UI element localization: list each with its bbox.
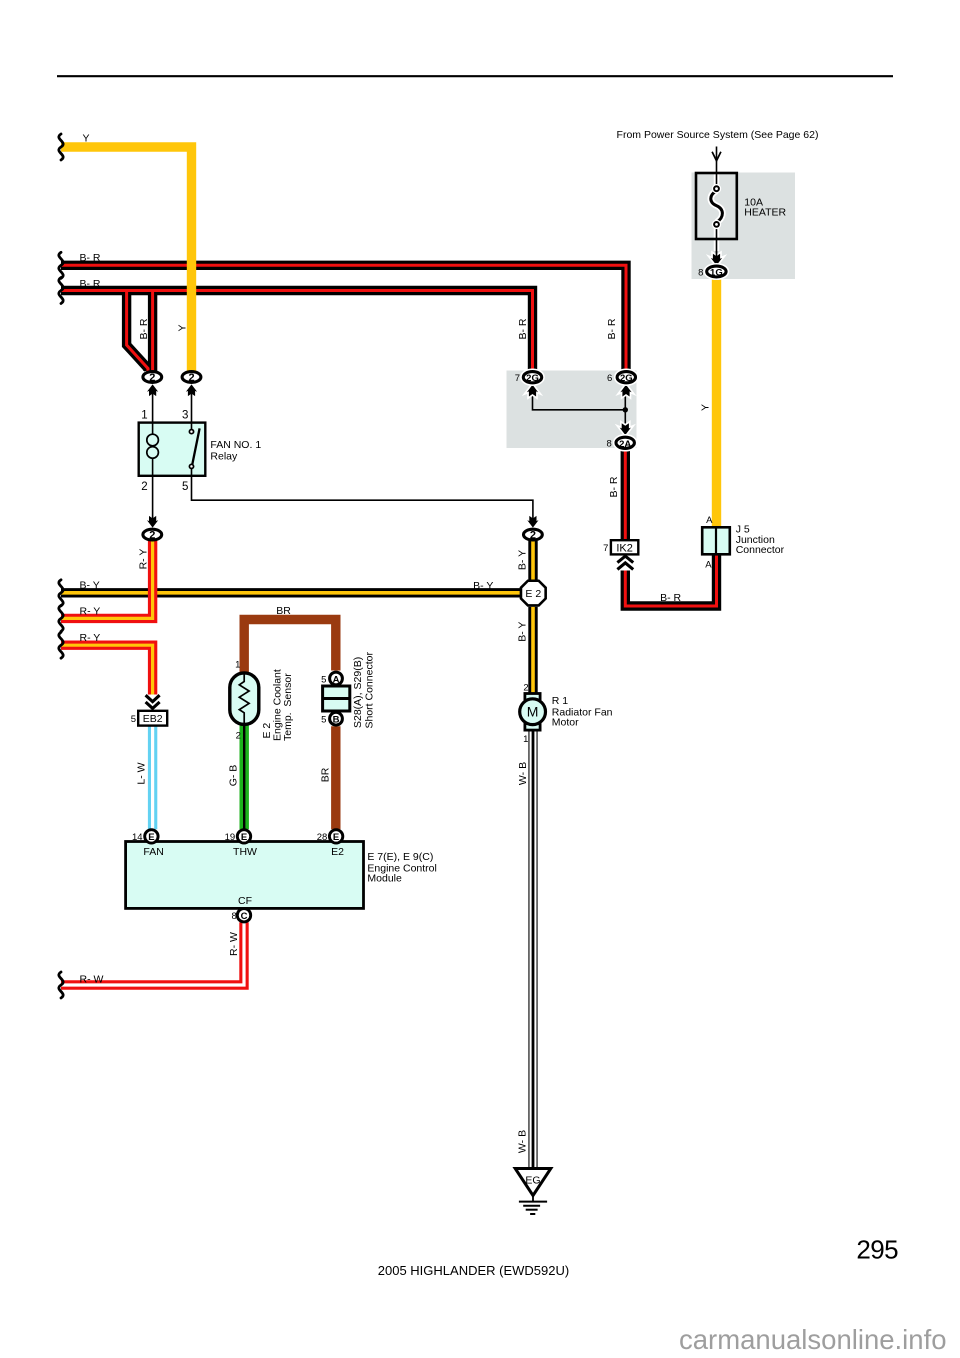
wire: connector 2 to relay pin 3	[191, 390, 193, 423]
ECM pin E 19 THW	[237, 830, 250, 843]
svg-text:2: 2	[188, 372, 194, 384]
svg-text:B- R: B- R	[517, 318, 529, 339]
svg-text:S28(A), S29(B): S28(A), S29(B)	[352, 657, 364, 728]
svg-text:BR: BR	[276, 605, 291, 617]
svg-text:E2: E2	[331, 846, 344, 858]
wire: 7 2G link to junction	[533, 392, 626, 410]
sensor E 2 Engine Coolant Temp. Sensor	[230, 659, 294, 741]
svg-text:Y: Y	[176, 324, 188, 331]
svg-text:Relay: Relay	[210, 451, 238, 463]
svg-text:Connector: Connector	[736, 544, 785, 556]
relay coil	[152, 423, 154, 434]
svg-text:14: 14	[132, 832, 143, 843]
svg-text:5: 5	[321, 674, 326, 685]
svg-text:1G: 1G	[710, 268, 723, 279]
wire: fuse to 1G	[716, 226, 718, 264]
open arrow into fuse	[712, 152, 721, 161]
wire: relay pin 2 to connector 2	[152, 476, 154, 520]
svg-text:28: 28	[317, 832, 328, 843]
svg-text:2A: 2A	[619, 439, 631, 450]
svg-text:2: 2	[523, 683, 528, 694]
svg-text:R- W: R- W	[228, 932, 240, 956]
svg-text:2005 HIGHLANDER (EWD592U): 2005 HIGHLANDER (EWD592U)	[378, 1263, 569, 1278]
svg-text:G- B: G- B	[228, 765, 240, 787]
fuse F1 10A HEATER	[696, 173, 787, 263]
svg-text:B: B	[333, 715, 340, 726]
svg-text:R- Y: R- Y	[80, 632, 101, 644]
break (R-Y 1)	[59, 605, 63, 631]
svg-text:3: 3	[182, 410, 188, 422]
svg-text:A: A	[706, 515, 713, 526]
break (R-Y 2)	[59, 632, 63, 658]
wire G-B (sensor pin2 to ECM THW)	[239, 724, 248, 829]
gray box: relay block (2G/2A)	[507, 371, 637, 449]
wire R-Y (from break to EB2)	[61, 645, 153, 694]
svg-text:Module: Module	[367, 873, 402, 885]
wire: fuse feed line	[716, 147, 718, 189]
svg-text:2: 2	[141, 481, 147, 493]
break (B-R 1)	[59, 252, 63, 278]
svg-text:R 1: R 1	[552, 695, 569, 707]
wire: connector 2 to relay pin 1	[152, 390, 154, 423]
svg-text:IK2: IK2	[616, 542, 633, 554]
connector 2G pin 7	[515, 372, 542, 385]
svg-text:From Power Source System (See: From Power Source System (See Page 62)	[617, 129, 819, 141]
svg-text:E: E	[148, 832, 154, 843]
svg-text:8: 8	[607, 439, 612, 450]
svg-text:THW: THW	[233, 846, 257, 858]
gray box: fuse block (1G)	[692, 173, 796, 280]
connector 1G pin 8	[698, 266, 726, 278]
connector IK2 pin 7	[603, 540, 638, 554]
svg-text:E: E	[241, 832, 247, 843]
svg-text:CF: CF	[238, 895, 252, 907]
double chevron into EB2 (down)	[146, 695, 160, 708]
svg-text:EB2: EB2	[143, 713, 163, 725]
svg-text:R- Y: R- Y	[80, 606, 101, 618]
junction connector J 5	[702, 515, 784, 570]
svg-text:R- Y: R- Y	[138, 549, 150, 570]
arrow into connector 2 (Y)	[186, 384, 197, 396]
motor R 1 Radiator Fan Motor	[520, 683, 613, 746]
svg-text:B- Y: B- Y	[80, 579, 100, 591]
svg-text:2: 2	[236, 731, 241, 742]
svg-text:A: A	[705, 559, 712, 570]
wire Y (left, from break to connector 2)	[61, 147, 192, 371]
wire W-B (motor to EG ground)	[528, 730, 537, 1168]
svg-text:B- R: B- R	[608, 476, 620, 497]
wire B-Y horizontal bus	[61, 588, 521, 597]
svg-text:Temp. Sensor: Temp. Sensor	[282, 673, 294, 741]
svg-text:W- B: W- B	[516, 1130, 528, 1153]
arrow into 6 2G	[620, 385, 631, 397]
break (B-R 2)	[59, 278, 63, 304]
wire: 6 2G link down to 2A	[624, 392, 626, 430]
wire B-Y (E2 to fan motor)	[528, 607, 537, 694]
ground EG	[515, 1169, 551, 1215]
svg-text:Y: Y	[83, 133, 90, 145]
wire R-W (ECM CF down, left to break)	[61, 922, 244, 985]
relay switch	[191, 423, 193, 430]
arrow into connector 2 below relay pin 2 (down)	[147, 516, 158, 528]
svg-text:5: 5	[131, 714, 136, 725]
wire BR (short connector B down to ECM E2)	[331, 726, 340, 829]
svg-text:W- B: W- B	[517, 762, 529, 785]
svg-text:EG: EG	[525, 1174, 540, 1186]
wire L-W (EB2 to ECM FAN)	[148, 726, 157, 830]
svg-text:Y: Y	[699, 404, 711, 411]
svg-text:R- W: R- W	[80, 973, 104, 985]
svg-text:FAN: FAN	[143, 846, 163, 858]
arrow into connector 2 (B-R)	[147, 384, 158, 396]
svg-text:C: C	[241, 911, 248, 922]
svg-text:2: 2	[149, 530, 155, 542]
svg-text:8: 8	[232, 911, 237, 922]
svg-text:2G: 2G	[526, 373, 539, 384]
arrow into 1G (down)	[711, 254, 722, 266]
svg-text:B- R: B- R	[138, 318, 150, 339]
svg-text:HEATER: HEATER	[744, 207, 786, 219]
relay FAN NO. 1 box	[139, 423, 206, 476]
ECM pin E 14 FAN	[145, 830, 158, 843]
svg-text:B- R: B- R	[660, 592, 681, 604]
break (Y)	[59, 134, 63, 160]
double chevron into IK2 (up)	[617, 556, 633, 569]
wire R-Y (connector 2 down, turns left to break)	[61, 541, 153, 618]
svg-text:Motor: Motor	[552, 717, 579, 729]
wire B-R (IK2 chevron to J5 pin A)	[625, 554, 716, 606]
svg-text:Short Connector: Short Connector	[363, 652, 375, 729]
svg-text:M: M	[527, 704, 539, 720]
top rule	[57, 75, 893, 77]
wire B-Y (connector 2 to E2)	[528, 541, 537, 580]
svg-text:B- R: B- R	[80, 278, 101, 290]
connector 2 (below relay pin 5)	[524, 529, 543, 541]
svg-text:B- Y: B- Y	[517, 550, 529, 570]
connector 2 (below relay pin 2)	[143, 529, 162, 541]
ECM E 7(E), E 9(C) Engine Control Module	[126, 830, 437, 922]
connector 2A pin 8	[607, 437, 635, 450]
svg-text:E: E	[333, 832, 339, 843]
svg-text:8: 8	[698, 267, 703, 278]
svg-text:5: 5	[182, 481, 188, 493]
svg-text:2G: 2G	[620, 373, 633, 384]
wire BR (sensor pin1 up over to short connector A)	[244, 620, 336, 673]
svg-text:L- W: L- W	[136, 762, 148, 784]
connector 2 (B-R, above relay)	[143, 372, 162, 384]
svg-text:7: 7	[515, 373, 520, 384]
svg-text:1: 1	[523, 734, 528, 745]
node E 2	[521, 581, 546, 606]
svg-text:B- Y: B- Y	[517, 622, 529, 642]
arrow into 7 2G	[527, 385, 538, 397]
arrow into connector 2 below relay pin 5 (down)	[527, 516, 538, 528]
svg-text:FAN NO. 1: FAN NO. 1	[210, 439, 261, 451]
svg-text:6: 6	[607, 373, 612, 384]
wire B-R (2A to IK2)	[621, 449, 630, 541]
ECM pin E 28 E2	[329, 830, 342, 843]
arrow into 2A (down)	[620, 423, 631, 435]
break (R-W)	[59, 972, 63, 998]
svg-text:2: 2	[530, 530, 536, 542]
svg-text:E 2: E 2	[525, 588, 541, 600]
svg-text:7: 7	[603, 543, 608, 554]
connector 2 (Y, above relay)	[182, 372, 201, 384]
svg-text:BR: BR	[320, 767, 332, 782]
svg-text:B- Y: B- Y	[473, 580, 493, 592]
break (B-Y)	[59, 580, 63, 606]
wire B-R bus 1 (to 6 2G)	[61, 265, 626, 371]
svg-text:5: 5	[321, 715, 326, 726]
svg-text:E 7(E), E 9(C): E 7(E), E 9(C)	[367, 851, 433, 863]
svg-text:1: 1	[141, 410, 147, 422]
svg-text:1: 1	[235, 659, 240, 670]
svg-text:19: 19	[225, 832, 236, 843]
svg-text:2: 2	[149, 372, 155, 384]
svg-text:B- R: B- R	[80, 252, 101, 264]
svg-text:A: A	[333, 674, 340, 685]
svg-text:295: 295	[856, 1235, 898, 1265]
wire B-R bus 2 (to connector 2 and 7 2G)	[61, 291, 533, 372]
connector EB2 pin 5	[131, 711, 167, 726]
connector 2G pin 6	[607, 372, 635, 385]
wire: relay pin 5 across to connector 2	[192, 476, 533, 520]
short connector S28(A), S29(B)	[321, 652, 375, 729]
svg-text:carmanualsonline.info: carmanualsonline.info	[679, 1324, 947, 1355]
wire Y (right, 1G to J5)	[712, 279, 721, 528]
junction dot	[623, 407, 628, 412]
svg-text:B- R: B- R	[606, 318, 618, 339]
